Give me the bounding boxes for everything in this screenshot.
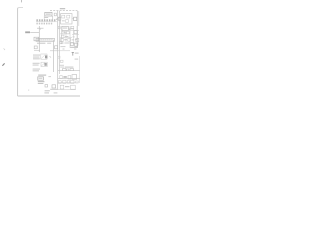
component on wire top: [58, 17, 61, 20]
value text: [65, 35, 68, 38]
small part below: [45, 85, 48, 87]
hatched box H1: [41, 54, 47, 59]
IC block U1: [45, 12, 52, 16]
horizontal wire mid-low: [58, 70, 80, 72]
stub wire left of U1: [43, 16, 45, 20]
label below U1: [44, 16, 48, 19]
tiny box below: [34, 46, 37, 49]
capacitor cluster C22: [75, 43, 78, 46]
component on wire 1: [63, 69, 66, 71]
border frame top-left hook: [18, 8, 23, 9]
resistor R11: [62, 31, 65, 34]
net label text: [60, 8, 65, 9]
IC block U2 top right: [61, 14, 72, 24]
vertical wire D: [53, 40, 55, 72]
right edge vertical wire: [78, 76, 80, 83]
wire from label: [30, 31, 39, 33]
small box with value: [34, 37, 39, 41]
border frame left vertical: [17, 8, 19, 96]
wire h3: [60, 42, 79, 44]
scan texture specks: [61, 29, 79, 49]
label right margin: [75, 59, 79, 60]
wire stub: [34, 50, 40, 52]
pencil tick left margin dark: [2, 63, 4, 65]
junction arrow on bus: [56, 18, 58, 20]
tick mark top margin: [20, 0, 22, 2]
dark wedge H1: [45, 55, 47, 58]
wire r3: [58, 50, 70, 52]
wire h1b: [72, 33, 79, 35]
relay box K1: [38, 77, 44, 80]
tick near wire: [50, 56, 51, 57]
right edge long vertical: [78, 56, 80, 76]
component on wire 2: [70, 69, 73, 71]
text dashes mid: [60, 45, 65, 48]
bus mid wire: [36, 21, 57, 23]
connector bus row pins upper: [36, 19, 55, 21]
border frame bottom horizontal: [18, 95, 80, 97]
component on wire 3: [67, 69, 69, 71]
component right of U1: [54, 13, 56, 16]
component D1 right: [74, 17, 77, 20]
capacitor C11: [74, 31, 77, 34]
vertical wire pair right edge: [76, 11, 78, 48]
small box near wires top: [58, 26, 60, 28]
capacitor cluster C21: [70, 43, 73, 46]
parts table 1 text rows: [33, 55, 40, 60]
wire corner left-mid: [37, 27, 44, 29]
component group right of K: [52, 85, 56, 88]
dark wedge H2: [44, 63, 46, 66]
connector strip hatched: [36, 38, 54, 41]
long vertical wire C: [38, 26, 40, 52]
wire h1: [60, 33, 70, 35]
label MIC: [25, 31, 30, 33]
pencil tick left margin faint: [4, 48, 5, 50]
vertical wires dense area: [61, 26, 63, 44]
components bottom right low: [60, 85, 64, 89]
horizontal wire bottom right mid: [58, 82, 78, 84]
stray dot: [28, 90, 29, 91]
small mark left of rows: [48, 75, 51, 78]
component mid center: [55, 46, 58, 49]
value text rows K2: [38, 81, 45, 82]
IC block U3: [62, 26, 68, 30]
stub wire from U1: [52, 16, 54, 19]
diode row: [60, 39, 63, 42]
resistor R12: [67, 31, 70, 33]
wire from U3: [68, 27, 73, 29]
value text below cluster: [70, 47, 78, 48]
small parts center low: [60, 60, 63, 62]
hatched box H2: [41, 62, 47, 66]
wire h2: [60, 37, 72, 39]
value text below strip: [37, 43, 45, 44]
label T: [72, 52, 74, 55]
connector bus row pins lower: [36, 23, 52, 25]
wire top right mesh: [69, 30, 79, 32]
long vertical wire B: [59, 11, 61, 74]
dashed net line top: [50, 10, 78, 12]
small box top right: [71, 26, 74, 29]
long vertical wire A: [57, 11, 59, 90]
label above K1: [38, 75, 46, 76]
label text right: [75, 53, 79, 54]
marks above bottom frame: [45, 90, 50, 91]
horizontal wire bottom right upper: [58, 77, 80, 79]
junction tick: [39, 28, 41, 30]
wire elbow center: [50, 50, 58, 52]
parts table 2 text rows: [33, 63, 40, 72]
text row above wire: [65, 67, 74, 68]
small box on vertical pair: [60, 41, 62, 44]
resistor R13: [61, 35, 64, 38]
